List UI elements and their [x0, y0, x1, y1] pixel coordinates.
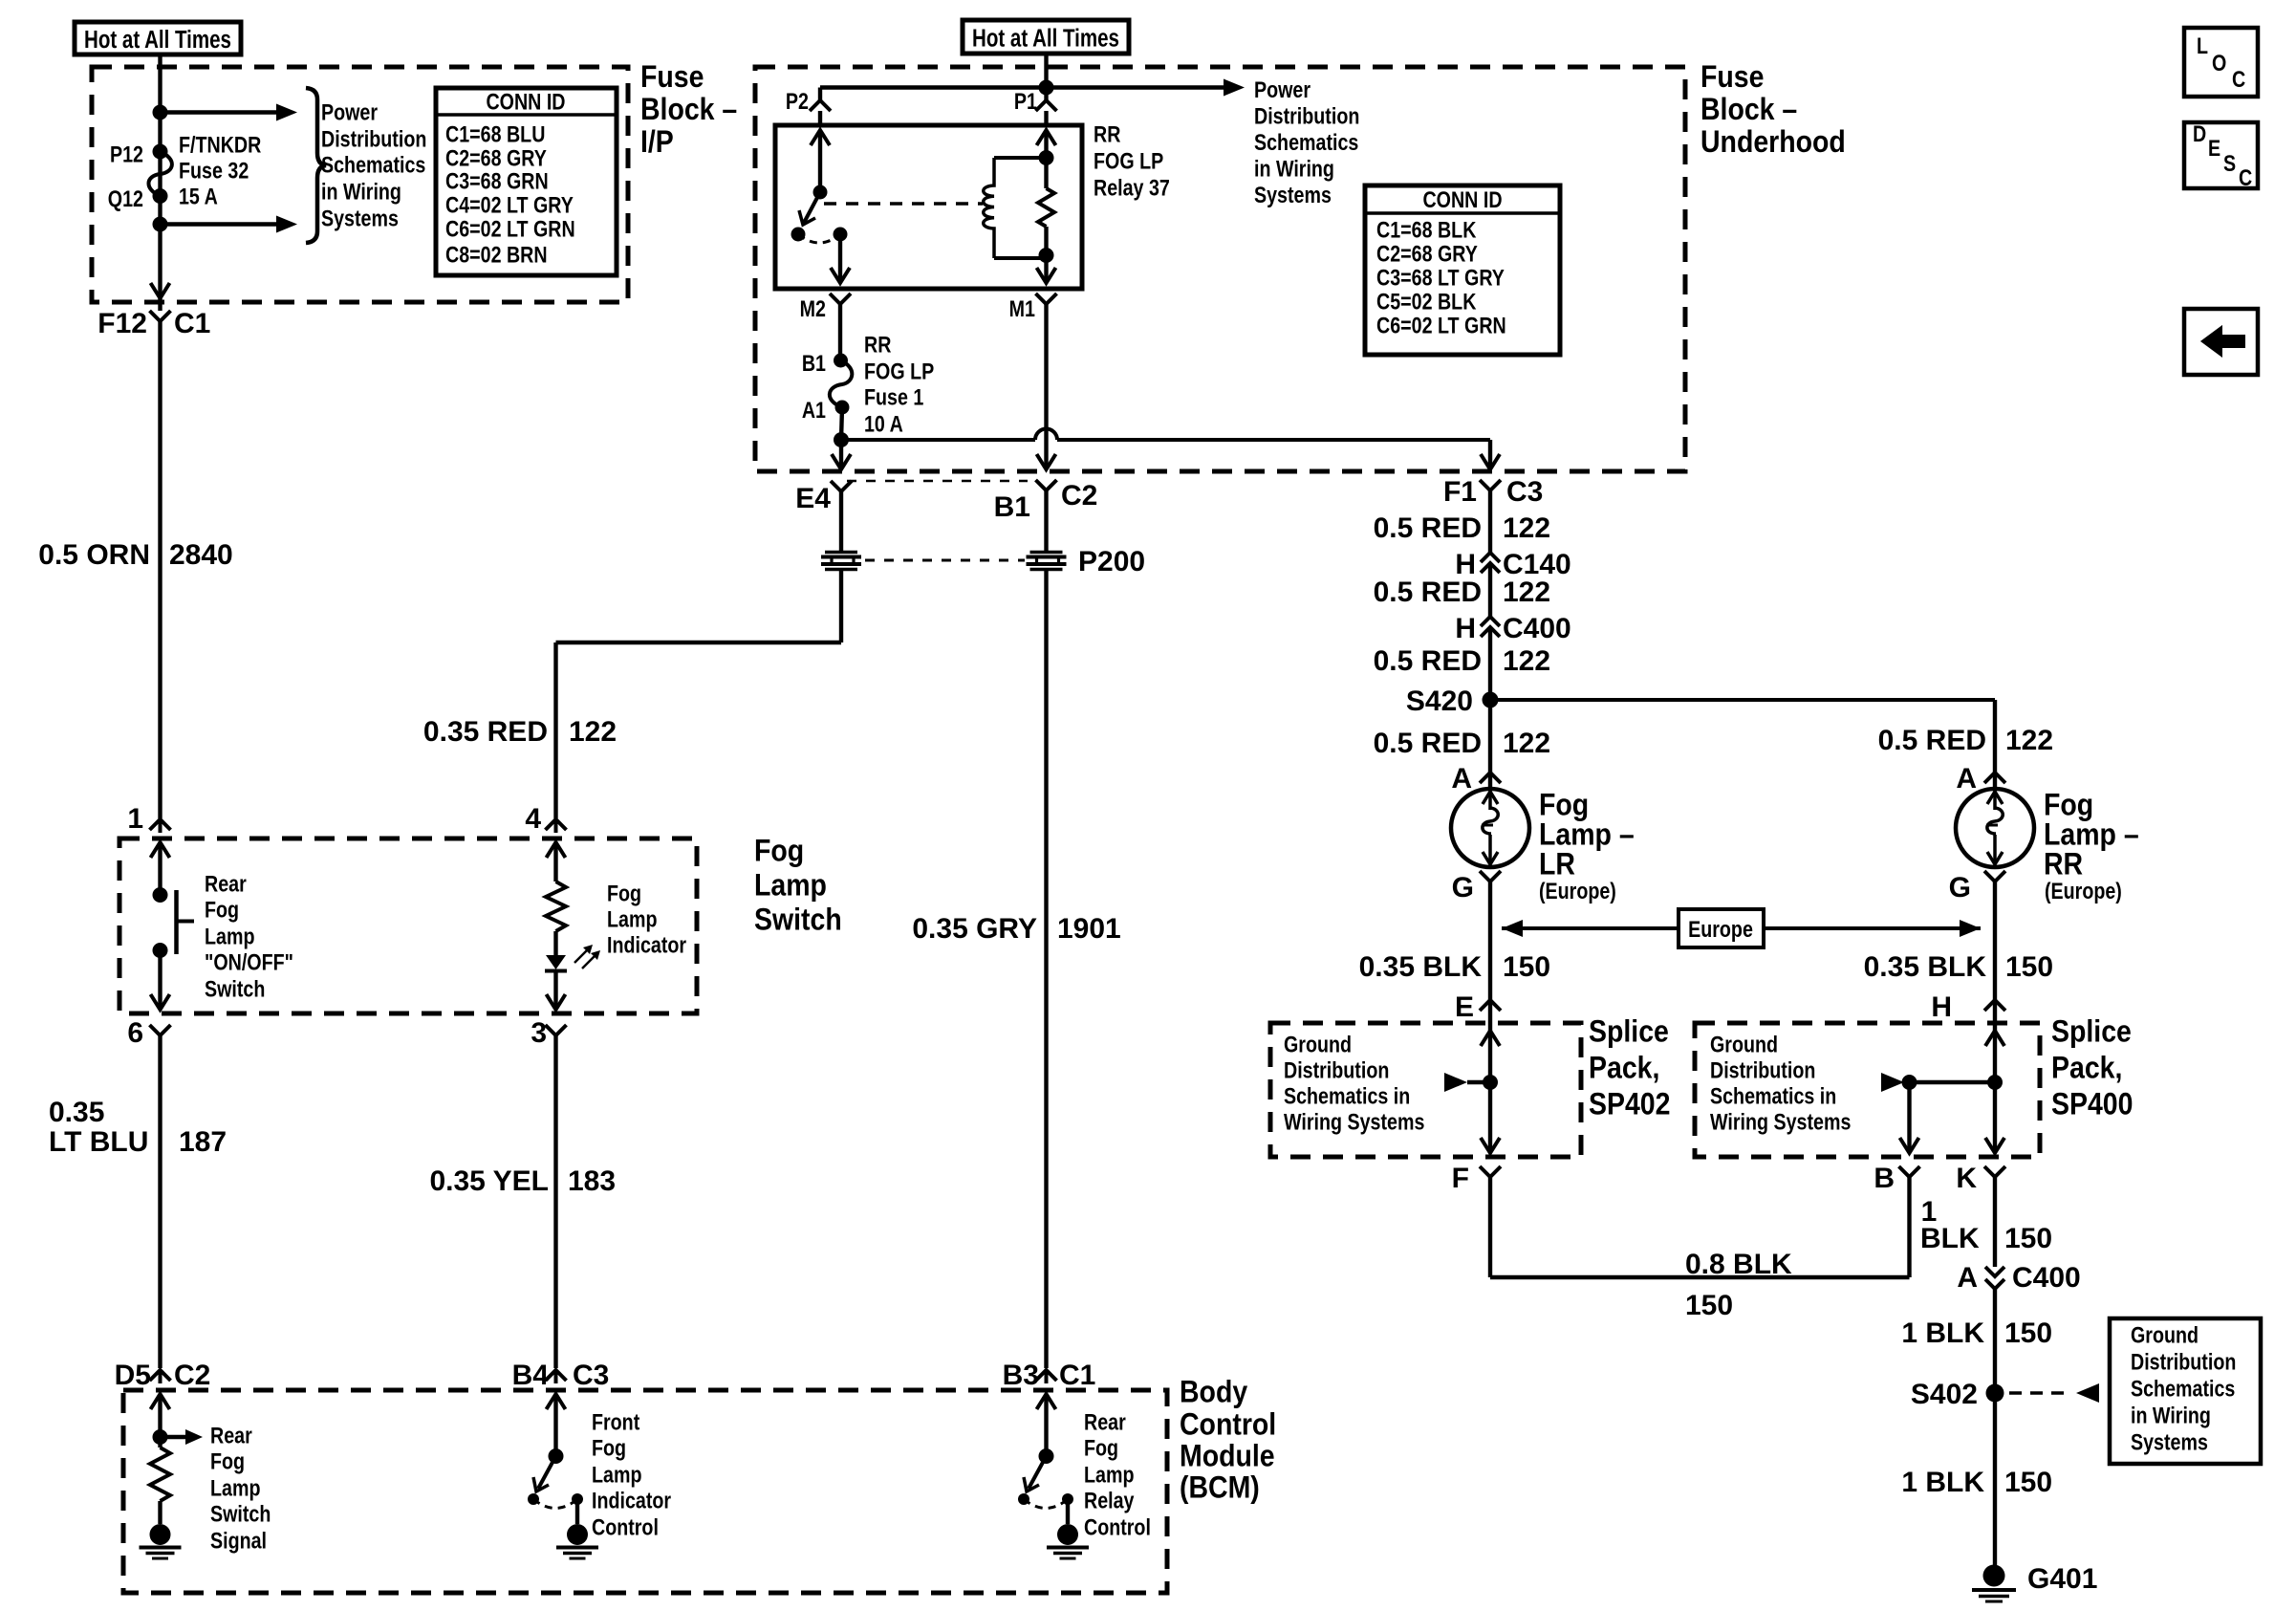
svg-text:P12: P12: [110, 142, 143, 167]
svg-text:Fog: Fog: [210, 1448, 245, 1474]
svg-text:E4: E4: [795, 483, 831, 514]
svg-text:P200: P200: [1078, 546, 1145, 577]
svg-text:122: 122: [569, 716, 617, 748]
svg-text:M2: M2: [800, 295, 826, 321]
svg-text:F1: F1: [1443, 476, 1477, 508]
svg-text:1: 1: [127, 803, 143, 835]
svg-text:B1: B1: [802, 350, 826, 376]
svg-text:K: K: [1956, 1163, 1977, 1194]
svg-text:Indicator: Indicator: [607, 932, 686, 958]
svg-text:(BCM): (BCM): [1180, 1471, 1260, 1505]
svg-text:Switch: Switch: [205, 976, 265, 1002]
svg-text:Wiring Systems: Wiring Systems: [1284, 1109, 1424, 1135]
svg-text:150: 150: [2004, 1467, 2052, 1498]
svg-text:C2=68 GRY: C2=68 GRY: [1376, 241, 1478, 267]
svg-text:Signal: Signal: [210, 1528, 267, 1554]
svg-text:Schematics: Schematics: [321, 152, 425, 178]
svg-text:0.8 BLK: 0.8 BLK: [1685, 1249, 1792, 1280]
svg-text:P1: P1: [1014, 88, 1037, 114]
svg-text:Fog: Fog: [2044, 789, 2093, 822]
svg-text:Ground: Ground: [2131, 1322, 2199, 1348]
svg-text:Systems: Systems: [321, 206, 399, 231]
svg-text:Fuse: Fuse: [640, 61, 704, 95]
svg-text:0.5 ORN: 0.5 ORN: [38, 539, 150, 571]
svg-text:F/TNKDR: F/TNKDR: [179, 132, 261, 158]
svg-text:O: O: [2212, 50, 2226, 76]
svg-text:Fuse 32: Fuse 32: [179, 158, 249, 184]
svg-text:Lamp: Lamp: [1084, 1462, 1134, 1488]
svg-text:0.35 RED: 0.35 RED: [423, 716, 548, 748]
svg-text:C4=02 LT GRY: C4=02 LT GRY: [445, 192, 574, 218]
svg-text:C3=68 LT GRY: C3=68 LT GRY: [1376, 265, 1505, 291]
svg-text:RR: RR: [1094, 121, 1121, 147]
svg-text:1 BLK: 1 BLK: [1901, 1467, 1984, 1498]
svg-text:122: 122: [1503, 512, 1550, 544]
svg-text:122: 122: [2005, 725, 2053, 756]
svg-text:Underhood: Underhood: [1700, 126, 1846, 160]
svg-text:Splice: Splice: [2051, 1015, 2132, 1049]
svg-text:Ground: Ground: [1284, 1032, 1352, 1057]
svg-text:Wiring Systems: Wiring Systems: [1710, 1109, 1851, 1135]
svg-text:Control: Control: [592, 1514, 659, 1540]
svg-text:RR: RR: [2044, 848, 2083, 882]
svg-text:6: 6: [127, 1017, 143, 1049]
svg-text:BLK: BLK: [1920, 1223, 1980, 1254]
svg-text:Q12: Q12: [108, 185, 143, 211]
svg-text:L: L: [2197, 33, 2208, 58]
svg-text:CONN ID: CONN ID: [486, 89, 565, 115]
svg-text:Control: Control: [1180, 1408, 1276, 1442]
svg-text:0.35 YEL: 0.35 YEL: [429, 1165, 549, 1197]
svg-text:150: 150: [2004, 1223, 2052, 1254]
svg-text:0.35: 0.35: [49, 1097, 104, 1128]
svg-text:G: G: [1949, 872, 1971, 903]
svg-text:2840: 2840: [169, 539, 233, 571]
svg-text:Lamp: Lamp: [754, 869, 827, 903]
svg-text:F: F: [1452, 1163, 1469, 1194]
svg-text:Schematics in: Schematics in: [1284, 1083, 1410, 1109]
svg-text:LT BLU: LT BLU: [49, 1126, 148, 1158]
svg-text:0.5 RED: 0.5 RED: [1374, 645, 1482, 677]
svg-text:1901: 1901: [1057, 913, 1121, 945]
svg-text:C400: C400: [1503, 613, 1571, 644]
svg-text:150: 150: [1685, 1290, 1733, 1321]
svg-text:C5=02 BLK: C5=02 BLK: [1376, 289, 1477, 315]
svg-text:Pack,: Pack,: [2051, 1052, 2122, 1085]
svg-text:D: D: [2193, 120, 2206, 146]
svg-text:C2: C2: [174, 1360, 210, 1391]
svg-text:G: G: [1452, 872, 1474, 903]
svg-text:Indicator: Indicator: [592, 1488, 671, 1513]
svg-text:LR: LR: [1539, 848, 1575, 882]
svg-text:A1: A1: [802, 397, 826, 423]
svg-text:Hot at All Times: Hot at All Times: [84, 26, 231, 54]
svg-text:Distribution: Distribution: [1284, 1057, 1389, 1083]
svg-text:10 A: 10 A: [864, 411, 903, 437]
svg-text:E: E: [2208, 135, 2220, 161]
svg-text:Distribution: Distribution: [1710, 1057, 1815, 1083]
svg-text:150: 150: [2004, 1317, 2052, 1349]
svg-text:Distribution: Distribution: [1254, 103, 1359, 129]
svg-text:S: S: [2223, 150, 2236, 176]
svg-text:150: 150: [1503, 951, 1550, 983]
svg-text:in Wiring: in Wiring: [321, 179, 401, 205]
svg-text:G401: G401: [2027, 1563, 2097, 1595]
svg-text:Switch: Switch: [754, 903, 842, 937]
svg-text:M1: M1: [1009, 295, 1035, 321]
svg-text:C3: C3: [573, 1360, 609, 1391]
svg-text:FOG LP: FOG LP: [1094, 148, 1163, 174]
svg-text:S402: S402: [1911, 1379, 1978, 1410]
svg-text:Front: Front: [592, 1409, 640, 1435]
svg-text:C3: C3: [1506, 476, 1543, 508]
svg-text:C1: C1: [1059, 1360, 1095, 1391]
svg-text:Relay: Relay: [1084, 1488, 1135, 1513]
svg-text:in Wiring: in Wiring: [2131, 1403, 2211, 1428]
svg-text:0.5 RED: 0.5 RED: [1374, 728, 1482, 759]
svg-text:Lamp: Lamp: [205, 924, 254, 949]
svg-text:B: B: [1874, 1163, 1895, 1194]
svg-text:Lamp: Lamp: [210, 1475, 260, 1501]
svg-text:A: A: [1451, 763, 1472, 795]
svg-text:Power: Power: [321, 99, 378, 125]
svg-text:C3=68 GRN: C3=68 GRN: [445, 168, 549, 194]
svg-text:122: 122: [1503, 645, 1550, 677]
svg-text:C: C: [2232, 66, 2245, 92]
svg-text:(Europe): (Europe): [1539, 878, 1616, 903]
svg-text:in Wiring: in Wiring: [1254, 156, 1334, 182]
svg-text:Pack,: Pack,: [1589, 1052, 1659, 1085]
svg-text:Fog: Fog: [205, 897, 239, 923]
svg-text:F12: F12: [97, 308, 147, 339]
svg-text:Distribution: Distribution: [321, 126, 426, 152]
svg-text:1 BLK: 1 BLK: [1901, 1317, 1984, 1349]
svg-text:H: H: [1931, 991, 1952, 1023]
svg-text:CONN ID: CONN ID: [1422, 186, 1502, 212]
svg-text:Module: Module: [1180, 1440, 1275, 1473]
svg-text:Fog: Fog: [754, 835, 804, 868]
svg-text:"ON/OFF": "ON/OFF": [205, 949, 293, 975]
svg-text:Lamp: Lamp: [592, 1462, 641, 1488]
svg-text:SP400: SP400: [2051, 1088, 2133, 1121]
svg-text:Power: Power: [1254, 76, 1310, 102]
svg-text:Fog: Fog: [592, 1435, 626, 1461]
svg-text:15 A: 15 A: [179, 184, 218, 209]
svg-text:4: 4: [525, 803, 541, 835]
svg-text:0.5 RED: 0.5 RED: [1878, 725, 1986, 756]
svg-text:A: A: [1956, 763, 1977, 795]
svg-text:C2: C2: [1061, 480, 1097, 512]
svg-text:Body: Body: [1180, 1376, 1247, 1409]
svg-text:C6=02 LT GRN: C6=02 LT GRN: [1376, 313, 1506, 338]
svg-text:Hot at All Times: Hot at All Times: [972, 24, 1119, 52]
svg-text:C: C: [2239, 164, 2252, 190]
svg-text:183: 183: [568, 1165, 616, 1197]
svg-text:Rear: Rear: [210, 1423, 252, 1448]
svg-text:Fog: Fog: [607, 881, 641, 906]
svg-text:P2: P2: [786, 88, 809, 114]
svg-text:Control: Control: [1084, 1514, 1151, 1540]
svg-text:C1=68 BLK: C1=68 BLK: [1376, 217, 1477, 243]
svg-text:Splice: Splice: [1589, 1015, 1669, 1049]
svg-text:0.35 GRY: 0.35 GRY: [912, 913, 1037, 945]
svg-text:Lamp –: Lamp –: [2044, 818, 2139, 852]
svg-text:E: E: [1455, 991, 1474, 1023]
svg-text:FOG LP: FOG LP: [864, 359, 934, 384]
svg-text:B1: B1: [994, 491, 1030, 523]
svg-text:B3: B3: [1003, 1360, 1039, 1391]
svg-text:Ground: Ground: [1710, 1032, 1778, 1057]
svg-text:Rear: Rear: [205, 871, 247, 897]
svg-text:Distribution: Distribution: [2131, 1349, 2236, 1375]
svg-text:Systems: Systems: [2131, 1429, 2208, 1455]
svg-text:187: 187: [179, 1126, 227, 1158]
svg-text:C8=02 BRN: C8=02 BRN: [445, 242, 548, 268]
svg-text:H: H: [1455, 613, 1476, 644]
svg-text:Fog: Fog: [1084, 1435, 1118, 1461]
svg-text:B4: B4: [512, 1360, 550, 1391]
svg-text:Relay 37: Relay 37: [1094, 175, 1170, 201]
svg-text:0.35 BLK: 0.35 BLK: [1864, 951, 1987, 983]
svg-text:0.5 RED: 0.5 RED: [1374, 577, 1482, 608]
svg-text:Systems: Systems: [1254, 182, 1332, 207]
svg-text:3: 3: [531, 1017, 547, 1049]
svg-text:Fuse: Fuse: [1700, 61, 1764, 95]
svg-text:A: A: [1957, 1262, 1978, 1294]
svg-text:122: 122: [1503, 577, 1550, 608]
svg-text:Schematics in: Schematics in: [1710, 1083, 1836, 1109]
svg-text:150: 150: [2005, 951, 2053, 983]
svg-text:Schematics: Schematics: [1254, 129, 1358, 155]
svg-text:(Europe): (Europe): [2045, 878, 2122, 903]
svg-text:Rear: Rear: [1084, 1409, 1126, 1435]
svg-text:0.35 BLK: 0.35 BLK: [1359, 951, 1483, 983]
svg-text:RR: RR: [864, 332, 892, 358]
svg-text:C1=68 BLU: C1=68 BLU: [445, 121, 545, 147]
svg-text:I/P: I/P: [640, 126, 674, 160]
svg-text:Fuse 1: Fuse 1: [864, 384, 923, 410]
svg-text:0.5 RED: 0.5 RED: [1374, 512, 1482, 544]
svg-text:Lamp: Lamp: [607, 906, 657, 932]
svg-text:C6=02 LT GRN: C6=02 LT GRN: [445, 216, 575, 242]
svg-text:Block –: Block –: [640, 94, 737, 127]
svg-text:SP402: SP402: [1589, 1088, 1670, 1121]
svg-text:D5: D5: [115, 1360, 151, 1391]
svg-text:Lamp –: Lamp –: [1539, 818, 1635, 852]
svg-text:C1: C1: [174, 308, 210, 339]
svg-text:Fog: Fog: [1539, 789, 1589, 822]
svg-text:Switch: Switch: [210, 1501, 271, 1527]
svg-text:Block –: Block –: [1700, 94, 1797, 127]
svg-text:122: 122: [1503, 728, 1550, 759]
svg-text:C400: C400: [2012, 1262, 2081, 1294]
svg-text:Schematics: Schematics: [2131, 1376, 2235, 1402]
svg-text:Europe: Europe: [1688, 916, 1753, 942]
svg-text:S420: S420: [1406, 686, 1473, 717]
